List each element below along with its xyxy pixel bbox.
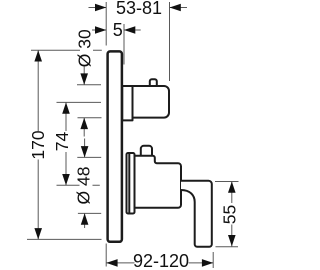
- lower flange: [127, 153, 135, 214]
- svg-text:Ø 48: Ø 48: [74, 167, 94, 205]
- wall plate: [108, 51, 122, 241]
- svg-text:170: 170: [28, 130, 48, 159]
- 55 dimension line: [231, 182, 233, 247]
- arrowheads: [34, 4, 235, 267]
- 92-120 left arrow: [106, 259, 117, 267]
- thermostat knob: [133, 86, 170, 118]
- d48 arrow shafts: [84, 139, 86, 158]
- svg-text:53-81: 53-81: [116, 0, 162, 18]
- part outlines: [108, 51, 212, 246]
- lever handle: [181, 181, 212, 247]
- d48 bottom arrow (up): [81, 213, 89, 224]
- svg-text:5: 5: [113, 20, 123, 40]
- 74 top extension: [57, 101, 102, 103]
- wall extension line: [105, 2, 107, 46]
- 170 bottom extension: [27, 238, 102, 240]
- thermostat sleeve: [122, 86, 132, 120]
- 55 top arrow (up): [228, 182, 236, 193]
- lower valve body: [135, 156, 182, 208]
- 55 bottom arrow (down): [228, 235, 236, 246]
- 170 top extension: [31, 49, 102, 51]
- d30 top extension: [77, 84, 101, 86]
- 92-120 right arrow: [202, 259, 213, 267]
- 5 right arrow: [124, 26, 135, 34]
- d48 bottom extension: [78, 212, 101, 214]
- 5 arrow tails: [92, 29, 106, 31]
- svg-text:Ø 30: Ø 30: [75, 29, 95, 67]
- text bg masks: [34, 31, 239, 270]
- svg-text:55: 55: [220, 205, 240, 224]
- 170 bottom arrow (down): [34, 228, 42, 239]
- 170 dimension line: [37, 50, 39, 239]
- svg-text:92-120: 92-120: [133, 251, 189, 270]
- 5 right extension: [123, 24, 125, 65]
- 55 top extension: [215, 181, 239, 183]
- 74 bottom arrow (down): [62, 174, 70, 185]
- d30 bottom arrow (up): [80, 118, 88, 129]
- lower flange inner line: [128, 153, 130, 214]
- 92-120 right extension: [212, 252, 214, 268]
- thermostat knob tab: [150, 79, 157, 86]
- 55 bottom extension: [216, 246, 239, 248]
- 74 top arrow (up): [62, 102, 70, 113]
- svg-text:74: 74: [52, 132, 72, 152]
- d30 top arrow (down): [80, 73, 88, 84]
- 53-81 arrow tails: [89, 7, 107, 9]
- thin extension / dimension lines: [27, 2, 239, 268]
- 53-81 left arrow: [95, 4, 106, 12]
- 74 bottom extension: [57, 184, 100, 186]
- d30 arrow shafts: [83, 65, 85, 85]
- dimension texts: [28, 0, 240, 270]
- 5 left arrow: [95, 26, 106, 34]
- lower tab: [141, 146, 152, 156]
- d48 top extension: [77, 156, 101, 158]
- 170 top arrow (up): [34, 50, 42, 61]
- d30 bottom extension: [78, 117, 102, 119]
- 74 dimension line: [65, 102, 67, 185]
- d48 top arrow (down): [81, 146, 89, 157]
- 53-81 right arrow: [170, 4, 181, 12]
- 53-81 right extension: [169, 2, 171, 81]
- 92-120 dimension line: [106, 262, 213, 264]
